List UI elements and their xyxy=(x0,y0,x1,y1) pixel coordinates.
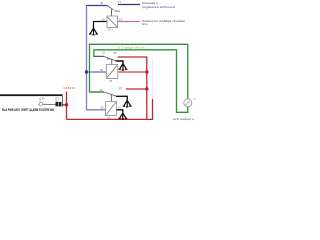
switch S2 blade xyxy=(104,92,117,96)
svg-text:15: 15 xyxy=(102,51,106,55)
legend box right edge xyxy=(62,96,64,107)
wire: relay K1 left pin to ground xyxy=(94,22,108,29)
relay K1 box xyxy=(107,16,118,28)
legend connector plug xyxy=(56,102,62,107)
relay K2 box xyxy=(106,65,118,79)
svg-text:C4,B4 C1: C4,B4 C1 xyxy=(64,86,76,90)
svg-text:87: 87 xyxy=(120,68,124,72)
wire: red bottom rail xyxy=(67,118,154,120)
wire: red from S2 to red bus xyxy=(126,88,147,90)
wire: pink output of relay K1 xyxy=(118,21,141,23)
relay K1 coil diagonal xyxy=(108,17,118,27)
wire: S3 black output bar to ground xyxy=(116,61,123,64)
wire: S3 input stub xyxy=(93,55,104,57)
relay K2 coil diagonal xyxy=(107,66,117,78)
svg-text:85 1: 85 1 xyxy=(108,29,113,32)
svg-text:57: 57 xyxy=(114,51,118,55)
relay K3 box xyxy=(106,102,117,116)
sensor B1 slash xyxy=(186,101,190,105)
svg-text:31: 31 xyxy=(118,105,122,109)
ground G3 xyxy=(123,100,132,107)
wire: red from S3 to red bus xyxy=(118,56,148,58)
junction dot: red bus at K2 xyxy=(145,70,148,73)
wire: red source riser xyxy=(66,92,68,120)
svg-text:50: 50 xyxy=(101,105,105,109)
svg-text:scft asdwq s: scft asdwq s xyxy=(173,117,195,121)
wire: navy feed to ignition switch S1 xyxy=(86,5,108,7)
wire: relay K1 top pin from S1 blade xyxy=(111,9,113,16)
sensor B1 circle xyxy=(184,99,192,107)
ground G2 xyxy=(119,64,128,71)
svg-text:15a: 15a xyxy=(115,9,120,13)
svg-text:0.5 gnge da bn: 0.5 gnge da bn xyxy=(118,45,146,49)
wire: relay K2 top pin xyxy=(111,59,113,65)
wire: red stub from connector xyxy=(62,104,67,106)
svg-text:30: 30 xyxy=(100,68,104,72)
svg-text:45: 45 xyxy=(100,1,104,5)
legend wire xyxy=(43,103,56,105)
relay K3 coil diagonal xyxy=(106,102,116,114)
wire: red bus vertical xyxy=(146,57,148,120)
svg-text:10: 10 xyxy=(102,17,106,21)
wire: relay K3 right pin to ground xyxy=(117,110,123,114)
wire: S2 black output bar to ground xyxy=(116,96,127,100)
wire: blue feed to relay K2 xyxy=(87,71,107,73)
wire: green inner loop (switch S3 feed to sensor bottom) xyxy=(94,50,188,113)
svg-text:Srtweyco wcfdqa dmstec: Srtweyco wcfdqa dmstec xyxy=(142,19,186,23)
svg-text:C5: C5 xyxy=(119,17,123,21)
svg-text:15: 15 xyxy=(100,88,104,92)
wire: green stub to switch S2 xyxy=(90,91,105,93)
junction dot: red bus at S2 xyxy=(145,87,148,90)
svg-text:btms: btms xyxy=(142,22,148,26)
wire: red output of relay K2 xyxy=(118,71,147,73)
wire: purple battery feed vertical bus xyxy=(87,6,106,110)
ground G4 xyxy=(118,113,127,119)
junction dot: red source xyxy=(65,103,68,106)
wire: navy contact output of S1 xyxy=(118,4,140,6)
legend battery symbol xyxy=(39,102,43,106)
switch S3 blade xyxy=(104,57,116,61)
svg-text:RLA PWR ANTI THEFT ALARM SYSTE: RLA PWR ANTI THEFT ALARM SYSTEM WD xyxy=(2,108,55,112)
switch S1 blade xyxy=(108,6,115,10)
wire: red right return leg xyxy=(152,99,154,119)
wire: faint pink upper return xyxy=(152,58,154,99)
wire: green outer loop (switch S2 feed around top to sensor top) xyxy=(90,44,188,99)
svg-text:57: 57 xyxy=(119,86,123,90)
svg-text:C7: C7 xyxy=(118,0,122,4)
junction dot: purple bus at K2 feed xyxy=(85,70,88,73)
ground G1 xyxy=(89,28,98,35)
svg-text:pxgdversa schtmecd: pxgdversa schtmecd xyxy=(142,5,175,9)
legend separator thick line xyxy=(0,94,63,96)
wire: relay K3 top pin xyxy=(110,95,112,102)
